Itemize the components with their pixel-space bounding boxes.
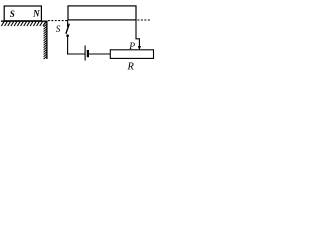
switch S xyxy=(56,24,69,37)
wire bottom left xyxy=(67,53,85,55)
wire bottom right xyxy=(89,53,110,55)
solenoid box xyxy=(68,6,136,20)
table surface hatching xyxy=(1,22,45,26)
bar magnet xyxy=(4,6,41,21)
table edge wall hatching xyxy=(44,22,47,59)
rheostat R xyxy=(110,50,153,73)
table surface line xyxy=(1,20,47,22)
svg-text:P: P xyxy=(128,41,135,52)
svg-text:S: S xyxy=(10,9,15,19)
wire left vertical bottom xyxy=(67,37,69,55)
wire right vertical xyxy=(136,20,139,47)
dashed alignment line right xyxy=(137,19,150,21)
dashed alignment line left xyxy=(48,20,68,22)
svg-text:R: R xyxy=(127,61,135,72)
slider arrow P xyxy=(128,41,141,52)
table edge wall line xyxy=(46,21,48,59)
svg-text:S: S xyxy=(56,24,61,34)
svg-text:N: N xyxy=(32,8,40,18)
wire left vertical top xyxy=(67,20,69,27)
battery xyxy=(85,46,88,61)
